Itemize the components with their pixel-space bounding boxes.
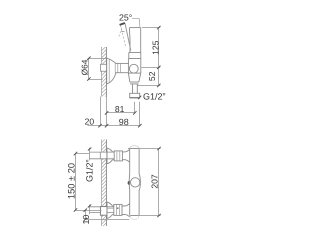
angle vertex mark [121, 30, 124, 32]
handle lever (side view) [125, 23, 131, 50]
bottom supply pipe stub [100, 207, 106, 213]
G1/2 leader line (top) [89, 148, 91, 161]
wall (hatched strip, front view) [102, 140, 107, 227]
faint dome top [130, 146, 139, 149]
svg-text:20: 20 [85, 117, 95, 127]
svg-text:98: 98 [119, 117, 129, 127]
lever tip cap [120, 23, 125, 25]
svg-text:G1/2”: G1/2” [85, 160, 95, 183]
svg-text:25°: 25° [119, 13, 132, 23]
escutcheon trumpet (side view) [107, 58, 116, 84]
dim 81 [107, 112, 135, 114]
dim 20 / 98 [88, 125, 140, 127]
temperature knob circle (front view) [131, 178, 140, 187]
dim 10 [86, 211, 130, 220]
bottom spud + flare into body [122, 204, 130, 217]
svg-text:125: 125 [150, 40, 160, 55]
top supply pipe stub [100, 152, 106, 159]
top escutcheon trumpet (front view) [107, 148, 113, 164]
left edge with slight bulge [128, 149, 130, 216]
right edge with bulge [139, 149, 140, 216]
bottom union nut [114, 204, 122, 215]
svg-text:G1/2”: G1/2” [143, 91, 166, 101]
mixer body (front view) [128, 146, 140, 220]
G1/2 leader line (bottom) [89, 205, 91, 215]
faint dome bottom [130, 216, 139, 220]
dim 125 / 52 (right side) [138, 28, 161, 86]
bottom escutcheon trumpet (front view) [107, 202, 113, 219]
dim 207 [139, 149, 160, 216]
svg-text:10: 10 [81, 215, 91, 225]
svg-text:52: 52 [147, 71, 157, 81]
svg-text:Ø64: Ø64 [80, 59, 90, 75]
dashed centerlines of angle [121, 25, 126, 47]
top shoulder [128, 148, 139, 150]
bottom shoulder [130, 215, 140, 217]
svg-text:150 ± 20: 150 ± 20 [67, 163, 77, 199]
wall (hatched strip, side view) [102, 47, 107, 97]
dim 150+-20 [76, 154, 102, 211]
dark button on left edge [128, 181, 130, 185]
top union nut [114, 151, 122, 161]
cartridge column (side view) [128, 28, 140, 84]
top spud + flare into body [122, 149, 129, 162]
bottom dims of side view: extension lines [101, 97, 140, 127]
knob circle (side view) [129, 64, 138, 73]
body tube (side view) [115, 62, 129, 64]
svg-text:81: 81 [115, 104, 125, 114]
dim diameter 64 (left side) [88, 58, 106, 79]
concealed union (white box on wall, side view) [101, 64, 107, 71]
bottom concealed union (white box) [100, 207, 107, 216]
svg-text:207: 207 [150, 174, 160, 189]
outlet pipe (side view) [130, 84, 140, 98]
